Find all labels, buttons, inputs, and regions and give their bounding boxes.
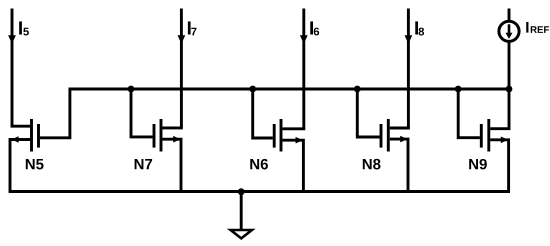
N7 gate bar <box>153 124 156 148</box>
N6 channel bar <box>280 119 283 152</box>
N6 drain wire <box>282 127 303 128</box>
transistor N5 <box>10 89 70 192</box>
N9 source arrow <box>501 137 508 144</box>
N8 drain wire <box>390 127 409 128</box>
wire I6 vertical <box>302 9 305 129</box>
ground <box>231 191 252 238</box>
transistor N6 <box>253 89 304 192</box>
arrowhead I8 <box>405 35 413 44</box>
N8 gate bar <box>380 124 383 148</box>
N5 drain wire <box>12 125 32 126</box>
node dot N6 gate <box>249 86 256 93</box>
N7 channel bar <box>160 119 163 152</box>
IREF inner arrowhead <box>506 33 513 39</box>
N8 source wire <box>390 139 408 191</box>
IREF inner arrow shaft <box>508 24 511 33</box>
N7 drain wire <box>162 127 181 128</box>
current source IREF circle <box>499 21 519 41</box>
node dot N7 gate <box>128 86 135 93</box>
node dot ground <box>238 188 245 195</box>
N8 gate wire <box>357 89 379 137</box>
N7 source wire <box>162 139 181 191</box>
label I7 <box>188 21 197 35</box>
N6 source wire <box>282 140 303 191</box>
wire above IREF <box>508 9 511 22</box>
ground rail wire <box>9 190 510 193</box>
N6 source arrow <box>296 137 303 144</box>
N5 source wire <box>10 140 32 192</box>
N7 source arrow <box>173 136 180 143</box>
N9 gate bar <box>480 124 483 148</box>
N9 drain wire <box>490 89 509 129</box>
transistor N9 <box>458 89 509 192</box>
N6 gate bar <box>273 124 276 148</box>
label N5 <box>26 159 44 169</box>
transistor N8 <box>357 89 408 192</box>
wire I7 vertical <box>180 9 183 128</box>
label I6 <box>310 21 319 35</box>
arrowhead I5 <box>8 35 16 44</box>
label N8 <box>363 159 381 170</box>
node dot N8 gate <box>354 86 361 93</box>
label N7 <box>135 159 153 169</box>
node dot IREF bus <box>506 86 513 93</box>
N8 channel bar <box>387 119 390 152</box>
label I8 <box>415 21 424 35</box>
N6 gate wire <box>253 89 273 138</box>
gate bus wire <box>69 88 510 91</box>
wire I5 vertical <box>11 9 14 127</box>
N5 gate wire <box>40 89 70 138</box>
node dot N9 gate <box>455 86 462 93</box>
ground stub wire <box>240 191 243 230</box>
N5 gate bar <box>37 124 40 148</box>
N8 source arrow <box>400 136 407 143</box>
N9 channel bar <box>487 119 490 152</box>
N5 source arrow <box>11 136 18 143</box>
N9 gate wire <box>458 89 480 138</box>
transistor N7 <box>131 89 181 192</box>
wire below IREF <box>508 41 511 88</box>
N7 gate wire <box>131 89 153 137</box>
label N6 <box>250 159 268 170</box>
label IREF <box>526 22 549 33</box>
arrowhead I7 <box>178 35 186 44</box>
N9 source wire <box>490 140 508 192</box>
N5 channel bar <box>30 119 33 152</box>
label I5 <box>19 21 29 35</box>
label N9 <box>469 159 487 170</box>
arrowhead I6 <box>300 35 308 44</box>
wire I8 vertical <box>407 9 410 129</box>
ground triangle <box>231 230 252 238</box>
